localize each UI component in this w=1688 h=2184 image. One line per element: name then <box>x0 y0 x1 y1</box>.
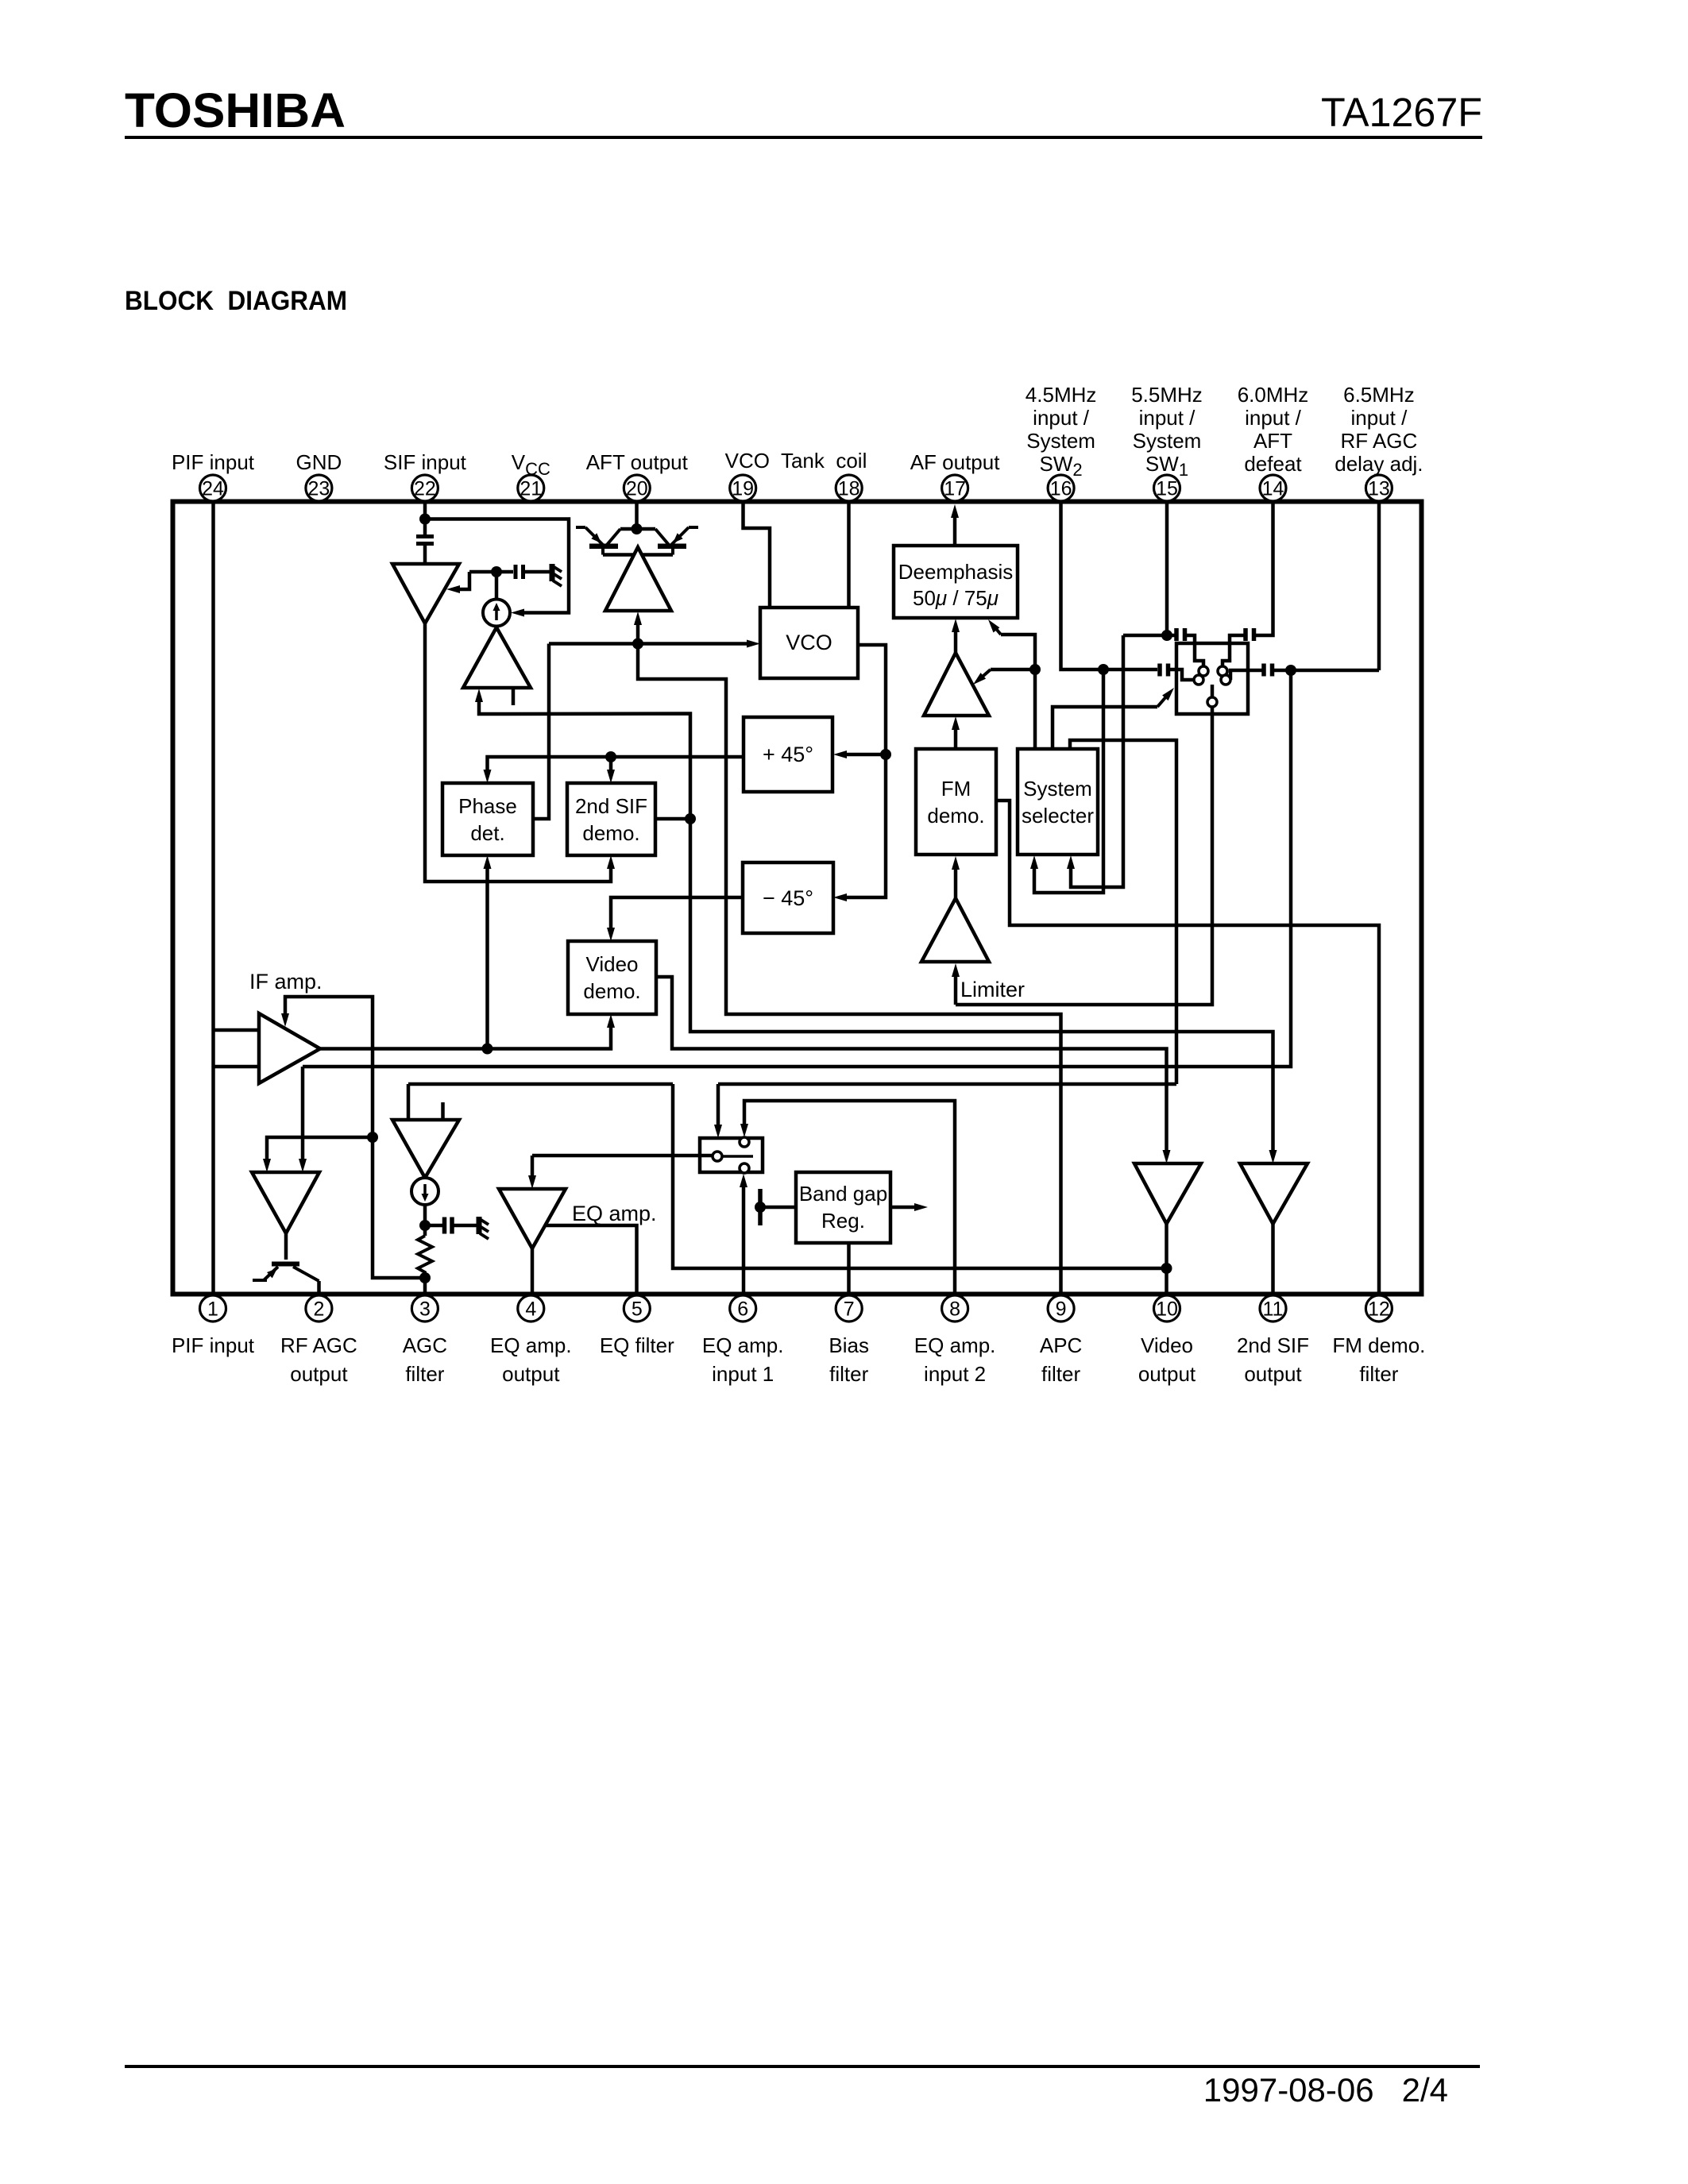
arrowhead into VCO <box>747 640 760 648</box>
svg-text:filter: filter <box>1041 1362 1080 1386</box>
op-amp SIF gain stage <box>463 627 531 688</box>
junction <box>1161 1263 1172 1274</box>
wire SIF node to current source <box>425 519 569 613</box>
wire cap into switch <box>1170 669 1193 680</box>
svg-text:APC: APC <box>1040 1333 1082 1357</box>
IC package outline <box>173 502 1422 1295</box>
svg-text:selecter: selecter <box>1022 804 1094 828</box>
svg-text:System: System <box>1133 429 1202 453</box>
svg-text:+ 45°: + 45° <box>763 743 813 766</box>
op-amp 2nd SIF output buffer <box>1240 1163 1308 1224</box>
wire to EQ switch <box>717 1084 720 1128</box>
pin 23 <box>306 475 332 501</box>
svg-text:SIF input: SIF input <box>384 450 467 474</box>
junction <box>491 566 502 577</box>
wire band gap to pin7 <box>847 1243 851 1294</box>
wire video buffer to pin10 <box>1165 1224 1168 1294</box>
svg-text:10: 10 <box>1156 1298 1178 1321</box>
svg-text:TOSHIBA: TOSHIBA <box>125 83 346 137</box>
svg-text:EQ amp.: EQ amp. <box>572 1202 657 1225</box>
svg-text:EQ amp.: EQ amp. <box>702 1333 784 1357</box>
svg-text:16: 16 <box>1050 478 1072 500</box>
svg-text:FM: FM <box>941 777 971 801</box>
wire pin22 SIF input to capacitor <box>423 503 427 534</box>
junction <box>632 639 643 650</box>
junction <box>419 1220 431 1231</box>
wire switch pole to limiter <box>956 707 1212 1005</box>
svg-text:demo.: demo. <box>927 804 984 828</box>
pin 13 label <box>1335 383 1423 476</box>
arrowhead emitter Q3 <box>267 1268 277 1278</box>
svg-text:output: output <box>290 1362 348 1386</box>
wire node to capacitor C3 <box>425 1224 442 1228</box>
svg-text:IF amp.: IF amp. <box>249 970 323 994</box>
capacitor C7 plate <box>1243 628 1248 641</box>
op-amp RF AGC amp <box>252 1172 319 1233</box>
svg-text:EQ amp.: EQ amp. <box>914 1333 996 1357</box>
pin 12 <box>1365 1295 1392 1322</box>
svg-text:17: 17 <box>944 478 966 500</box>
pin 6 <box>730 1295 756 1322</box>
op-amp SIF amp <box>392 564 459 623</box>
svg-text:GND: GND <box>296 450 342 474</box>
pin 14 label <box>1238 383 1309 476</box>
capacitor C5 plate <box>1261 664 1266 677</box>
pin 7 label <box>829 1333 869 1386</box>
svg-text:13: 13 <box>1368 478 1390 500</box>
svg-text:3: 3 <box>419 1298 431 1321</box>
junction <box>755 1202 766 1213</box>
wire control to AF amp <box>991 668 1035 672</box>
svg-text:23: 23 <box>307 478 330 500</box>
junction <box>1029 664 1041 675</box>
svg-text:det.: det. <box>470 821 504 845</box>
arrowhead band gap output <box>914 1203 928 1211</box>
svg-text:RF AGC: RF AGC <box>1341 429 1418 453</box>
wire switch to cap C5 <box>1230 670 1262 680</box>
svg-text:input /: input / <box>1245 406 1302 430</box>
svg-text:AFT output: AFT output <box>586 450 689 474</box>
junction <box>482 1044 493 1055</box>
junction <box>685 813 696 824</box>
wire capacitor to SIF amp <box>423 546 427 564</box>
wire switch node <box>1123 634 1176 638</box>
wire EQ switch to EQ amp <box>532 1154 713 1158</box>
arrowhead into AF amp edge <box>973 673 986 685</box>
svg-text:22: 22 <box>414 478 436 500</box>
wire bus to video output node <box>673 1084 1167 1268</box>
svg-text:7: 7 <box>844 1298 855 1321</box>
wire stub AGC amp <box>441 1102 445 1120</box>
wire VCO control input <box>549 642 749 646</box>
wire 2nd SIF chain to pin11 buffer <box>479 699 1273 1153</box>
pin 5 label <box>600 1333 674 1357</box>
switch S1 (system switch) <box>1176 643 1248 714</box>
wire system selecter to switch control <box>1053 707 1157 749</box>
block video demodulator <box>568 941 656 1014</box>
pin 13 <box>1365 475 1392 501</box>
pin 19 <box>730 475 756 501</box>
wire RF AGC amp to transistor Q3 <box>284 1233 288 1260</box>
pin 1 label <box>172 1333 255 1357</box>
svg-text:Limiter: Limiter <box>960 978 1025 1001</box>
wire node to AFT amp <box>636 622 640 644</box>
wire to system selecter input 2 <box>1071 635 1123 887</box>
svg-text:Deemphasis: Deemphasis <box>898 560 1014 584</box>
wire to phase det bottom <box>485 866 489 1049</box>
svg-text:PIF input: PIF input <box>172 1333 255 1357</box>
arrowhead into deemphasis corner <box>988 619 999 633</box>
wire pin8 to EQ switch <box>744 1101 955 1294</box>
pin 24 label <box>172 450 255 474</box>
svg-text:5: 5 <box>632 1298 643 1321</box>
arrowhead into 2nd SIF demo top <box>607 770 615 783</box>
wire emitters join <box>603 553 673 557</box>
svg-text:21: 21 <box>520 478 542 500</box>
arrowhead into phase det bottom <box>484 855 492 869</box>
svg-text:18: 18 <box>838 478 860 500</box>
wire pin16 to switch cap <box>1061 503 1158 669</box>
op-amp AGC amp <box>392 1120 459 1178</box>
op-amp AF amp <box>924 653 989 716</box>
wire bus segment <box>408 1082 673 1086</box>
wire IF amp output to video demo <box>320 1024 611 1049</box>
wire SIF amp to 2nd SIF demo <box>425 623 611 882</box>
wire to 2nd SIF demo top <box>609 757 613 773</box>
svg-text:Video: Video <box>1141 1333 1193 1357</box>
wire transistor bases <box>620 527 655 531</box>
pin 9 <box>1048 1295 1074 1322</box>
wire cap into switch <box>1187 635 1203 666</box>
current source I2 <box>411 1178 438 1205</box>
arrowhead into 2nd SIF demo bottom <box>607 855 615 869</box>
op-amp IF amp <box>259 1013 320 1083</box>
transistor Q3 <box>253 1262 319 1282</box>
pin 18 <box>836 475 862 501</box>
svg-text:2: 2 <box>313 1298 324 1321</box>
svg-text:TA1267F: TA1267F <box>1321 90 1482 135</box>
svg-text:6.0MHz: 6.0MHz <box>1238 383 1309 407</box>
wire -45 to video demo <box>611 897 743 931</box>
pin 3 label <box>403 1333 447 1386</box>
op-amp EQ amp <box>499 1189 566 1248</box>
pin 15 label <box>1131 383 1203 480</box>
pin 2 label <box>280 1333 357 1386</box>
arrowhead into video buffer <box>1163 1150 1171 1163</box>
pin 20 label <box>586 450 689 474</box>
pin 2 <box>306 1295 332 1322</box>
resistor R1 <box>418 1236 432 1278</box>
arrowhead into +45 <box>833 751 847 758</box>
pin 7 <box>836 1295 862 1322</box>
pin 10 label <box>1138 1333 1196 1386</box>
wire pin15 <box>1165 503 1169 635</box>
svg-text:input /: input / <box>1350 406 1408 430</box>
svg-text:6: 6 <box>737 1298 748 1321</box>
arrowhead into system selecter <box>1030 855 1038 869</box>
svg-text:24: 24 <box>202 478 224 500</box>
block VCO <box>760 608 858 678</box>
arrowhead into RF AGC amp <box>263 1159 271 1172</box>
svg-text:Band gap: Band gap <box>799 1182 887 1206</box>
wire pin19 to VCO <box>744 503 771 608</box>
block FM demodulator <box>916 749 996 855</box>
capacitor C3 plate <box>442 1217 447 1234</box>
pin 6 label <box>702 1333 784 1386</box>
wire switch pole <box>1211 685 1215 697</box>
block phase detector <box>442 783 533 855</box>
svg-text:filter: filter <box>829 1362 868 1386</box>
op-amp limiter amp <box>921 898 989 962</box>
svg-text:VCO: VCO <box>786 631 832 654</box>
transistor Q1 <box>576 527 620 555</box>
block system selecter <box>1018 749 1098 855</box>
arrowhead into SIF amp <box>446 585 460 593</box>
wire 2nd SIF demo output <box>655 817 690 821</box>
junction <box>880 749 891 760</box>
pin 5 <box>624 1295 650 1322</box>
switch S2 (EQ input switch) <box>700 1137 763 1173</box>
wire pin24-pin1 PIF input rail <box>211 503 215 1294</box>
wire AGC feedback loop <box>285 997 425 1278</box>
capacitor C2 plate <box>514 565 518 579</box>
wire to phase det right <box>533 644 549 820</box>
svg-text:output: output <box>502 1362 560 1386</box>
arrowhead into system selecter <box>1067 855 1075 869</box>
wire to band gap reg <box>760 1206 796 1210</box>
svg-text:BLOCK DIAGRAM: BLOCK DIAGRAM <box>125 286 347 316</box>
junction <box>1098 664 1109 675</box>
arrowhead into EQ amp <box>528 1175 536 1189</box>
svg-text:AF output: AF output <box>910 450 1001 474</box>
pin 16 <box>1048 475 1074 501</box>
svg-text:20: 20 <box>626 478 648 500</box>
svg-text:input /: input / <box>1139 406 1196 430</box>
arrowhead into 2nd SIF output buffer <box>1269 1150 1277 1163</box>
arrowhead into deemphasis <box>952 619 960 632</box>
svg-text:14: 14 <box>1262 478 1284 500</box>
arrowhead emitter Q2 <box>673 533 683 543</box>
arrowhead into limiter base <box>952 963 960 977</box>
svg-text:Phase: Phase <box>458 794 517 818</box>
block Deemphasis 50u/75u <box>894 546 1018 618</box>
svg-text:9: 9 <box>1056 1298 1067 1321</box>
pin 24 <box>200 475 226 501</box>
transistor Q2 <box>655 527 698 555</box>
footer rule <box>125 2065 1480 2068</box>
wire cap C5 to pin13 node <box>1273 669 1379 673</box>
arrowhead to pin 17 <box>951 504 959 518</box>
pin 1 <box>200 1295 226 1322</box>
svg-text:PIF input: PIF input <box>172 450 255 474</box>
svg-text:delay adj.: delay adj. <box>1335 452 1423 476</box>
svg-text:2nd SIF: 2nd SIF <box>1237 1333 1309 1357</box>
svg-text:demo.: demo. <box>583 979 640 1003</box>
wire to +45 <box>844 753 886 757</box>
pin 12 label <box>1332 1333 1425 1386</box>
wire AF amp to deemphasis <box>954 629 958 653</box>
wire pin16 branch to system selecter <box>1034 669 1103 893</box>
svg-text:Bias: Bias <box>829 1333 869 1357</box>
wire bus segment 2 <box>718 1082 1176 1086</box>
wire AGC to RF AGC amp <box>267 1137 373 1162</box>
wire switch output bus to RF AGC <box>303 670 1291 1067</box>
wire APC to pin 9 <box>638 644 1061 1295</box>
svg-text:input 2: input 2 <box>924 1362 986 1386</box>
pin 8 <box>942 1295 968 1322</box>
pin 4 label <box>490 1333 572 1386</box>
wire to SIF amp gain input <box>458 572 469 589</box>
wire pin13 <box>1377 503 1381 670</box>
capacitor plate / stub <box>758 1189 763 1225</box>
arrowhead into video demo top <box>607 928 615 941</box>
pin 9 label <box>1040 1333 1082 1386</box>
arrowhead into -45 <box>833 893 847 901</box>
junction <box>605 751 616 762</box>
wire limiter to FM demo <box>954 866 958 898</box>
pin 20 <box>624 475 650 501</box>
pin 14 <box>1260 475 1286 501</box>
junction <box>632 523 643 534</box>
arrowhead into amp base <box>475 689 483 702</box>
arrowhead emitter Q1 <box>591 533 601 543</box>
wire cap into switch <box>1223 635 1244 666</box>
arrowhead into FM demo bottom <box>952 856 960 870</box>
block 2nd SIF demodulator <box>567 783 655 855</box>
svg-text:5.5MHz: 5.5MHz <box>1131 383 1203 407</box>
arrowhead into current source <box>511 609 524 617</box>
svg-text:input 1: input 1 <box>712 1362 774 1386</box>
current source I1 <box>483 600 510 627</box>
block band gap regulator <box>796 1172 890 1243</box>
arrowhead into IF amp <box>281 1013 289 1027</box>
pin 10 <box>1154 1295 1180 1322</box>
svg-text:output: output <box>1244 1362 1302 1386</box>
svg-text:− 45°: − 45° <box>763 886 813 910</box>
svg-text:2nd SIF: 2nd SIF <box>575 794 647 818</box>
pin 4 <box>518 1295 544 1322</box>
svg-text:Reg.: Reg. <box>821 1209 865 1233</box>
junction <box>419 514 431 525</box>
block phase shifter -45 <box>743 862 833 933</box>
svg-text:50μ / 75μ: 50μ / 75μ <box>913 586 999 610</box>
pin 22 label <box>384 450 467 474</box>
svg-text:output: output <box>1138 1362 1196 1386</box>
wire deemphasis to pin17 <box>953 515 957 546</box>
wire capacitor C2 to ground <box>525 570 552 574</box>
junction <box>1161 630 1172 641</box>
arrowhead into AFT amp base <box>634 612 642 625</box>
wire to pin 3 <box>423 1278 427 1294</box>
wire EQ amp to pin4 <box>531 1248 535 1294</box>
svg-text:AFT: AFT <box>1253 429 1292 453</box>
pin 21 <box>518 475 544 501</box>
junction <box>367 1132 378 1143</box>
wire band gap output <box>890 1206 917 1210</box>
svg-text:11: 11 <box>1263 1298 1284 1321</box>
arrowhead into switch <box>1162 688 1174 700</box>
pin 15 <box>1154 475 1180 501</box>
svg-text:filter: filter <box>1359 1362 1398 1386</box>
svg-text:AGC: AGC <box>403 1333 447 1357</box>
pin 17 <box>942 475 968 501</box>
capacitor C6 plate <box>1174 628 1179 641</box>
arrowhead into video demo bottom <box>607 1014 615 1028</box>
svg-text:System: System <box>1026 429 1095 453</box>
wire IF amp input 1 <box>214 1028 260 1032</box>
wire to system selecter top <box>1033 669 1037 749</box>
wire EQ amp output to pin5 <box>545 1225 637 1294</box>
svg-text:8: 8 <box>949 1298 960 1321</box>
wire bus to AGC amp <box>407 1084 411 1120</box>
svg-text:System: System <box>1023 777 1092 801</box>
pin 3 <box>411 1295 438 1322</box>
svg-text:filter: filter <box>405 1362 444 1386</box>
wire to RF AGC amp <box>301 1067 305 1162</box>
wire video demo output <box>656 977 1167 1153</box>
wire current source to node <box>423 1205 427 1236</box>
svg-text:1997-08-06 2/4: 1997-08-06 2/4 <box>1203 2071 1448 2109</box>
svg-text:EQ filter: EQ filter <box>600 1333 674 1357</box>
arrowhead into RF AGC amp <box>299 1159 307 1172</box>
wire pin14 to cap <box>1256 503 1273 635</box>
svg-text:EQ amp.: EQ amp. <box>490 1333 572 1357</box>
pin 8 label <box>914 1333 996 1386</box>
svg-text:15: 15 <box>1156 478 1178 500</box>
pin 17 label <box>910 450 1001 474</box>
wire Q3 collector to pin2 <box>317 1281 321 1294</box>
wire 2nd SIF buffer to pin11 <box>1271 1224 1275 1294</box>
op-amp video output buffer <box>1134 1163 1201 1224</box>
ground <box>552 564 562 586</box>
op-amp AFT amp <box>605 547 671 611</box>
svg-text:12: 12 <box>1368 1298 1390 1321</box>
wire FM demo to AF amp <box>954 727 958 749</box>
svg-text:Video: Video <box>585 952 638 976</box>
arrowhead into EQ switch contact <box>740 1174 747 1187</box>
wire +45 output to phase det <box>488 757 744 773</box>
svg-text:input /: input / <box>1033 406 1090 430</box>
wire limiter input stem <box>954 974 958 1005</box>
pin 23 label <box>296 450 342 474</box>
junction <box>1285 665 1296 676</box>
svg-text:FM demo.: FM demo. <box>1332 1333 1425 1357</box>
pin 16 label <box>1026 383 1097 480</box>
wire node to current source I1 <box>495 572 499 600</box>
wire pin6 to EQ switch <box>742 1183 746 1294</box>
ground <box>479 1217 489 1239</box>
wire IF amp input 2 <box>214 1065 260 1069</box>
pin 22 <box>411 475 438 501</box>
svg-text:defeat: defeat <box>1244 452 1302 476</box>
svg-text:19: 19 <box>732 478 754 500</box>
wire capacitor C3 to ground <box>454 1224 477 1228</box>
wire VCO output to phase shifters <box>844 645 886 897</box>
wire system selecter to deemphasis control <box>1001 635 1035 669</box>
capacitor C4 plate <box>1157 664 1162 677</box>
svg-text:4.5MHz: 4.5MHz <box>1026 383 1097 407</box>
pin 11 <box>1260 1295 1286 1322</box>
pin 11 label <box>1237 1333 1309 1386</box>
wire stub <box>512 688 516 705</box>
wire pin18 to VCO <box>847 503 851 608</box>
svg-text:1: 1 <box>207 1298 218 1321</box>
arrowhead into EQ switch contact <box>740 1124 748 1137</box>
wire into EQ amp <box>531 1156 535 1179</box>
header rule <box>125 136 1482 139</box>
wire AGC node to capacitor C2 <box>469 570 513 574</box>
arrowhead into AF amp base <box>952 716 960 730</box>
